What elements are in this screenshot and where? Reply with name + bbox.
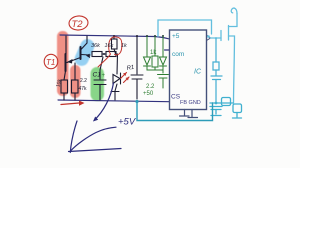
svg-text:+5V: +5V (118, 117, 137, 128)
svg-text:1k: 1k (121, 43, 127, 49)
svg-text:IC: IC (194, 69, 202, 76)
svg-text:C1: C1 (93, 72, 102, 79)
svg-text:36k: 36k (91, 43, 100, 49)
svg-text:T2: T2 (72, 19, 84, 30)
svg-text:+: + (102, 73, 106, 79)
svg-text:com: com (172, 51, 184, 58)
svg-text:+50: +50 (143, 91, 154, 97)
svg-text:2.2: 2.2 (80, 78, 87, 84)
svg-text:47k: 47k (79, 86, 88, 92)
svg-text:+5: +5 (172, 33, 180, 40)
svg-text:2.2: 2.2 (146, 84, 155, 90)
svg-text:FB GND: FB GND (180, 100, 201, 106)
svg-text:1k: 1k (150, 50, 157, 56)
svg-text:16k: 16k (105, 43, 114, 49)
svg-text:T1: T1 (46, 58, 55, 67)
